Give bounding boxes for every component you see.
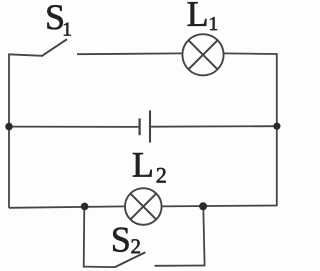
label L1 [188,2,217,30]
label L2 [133,153,166,182]
node left junction [5,123,13,131]
wire left vertical [8,54,10,208]
wire bottom rail right [162,205,277,208]
node bottom-right junction [199,202,207,210]
switch S1 blade [42,39,68,56]
lamp L1 [182,34,223,75]
battery positive plate (long) [149,110,151,142]
wire S1 contact to L1 [77,52,183,55]
wire S2 contact bottom right [155,265,206,267]
lamp L2 [125,188,162,225]
wire middle rail left [9,126,139,128]
label S2 [113,228,140,254]
label S1 [47,5,70,35]
wire S2 branch right vertical [203,207,204,266]
node right junction [273,123,280,130]
wire S2 bottom left [83,266,116,269]
wire top-left to switch S1 [8,54,42,56]
switch S2 blade [115,252,145,267]
wire bottom rail left [9,206,125,207]
wire L1 to top-right corner [224,52,278,55]
battery negative plate (short) [138,118,140,135]
wire right vertical [276,53,278,206]
wire S2 branch left vertical [83,207,86,267]
wire middle rail right [151,125,277,128]
node bottom-left junction [81,203,89,211]
